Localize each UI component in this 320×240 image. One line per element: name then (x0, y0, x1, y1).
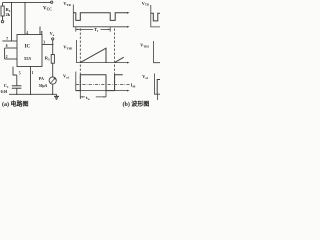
label IM (131, 82, 136, 88)
caption a (2, 100, 29, 108)
svg-text:7: 7 (6, 37, 8, 41)
node VTH waveform R2 axes (154, 41, 161, 63)
wire pin4 drop (24, 3, 26, 35)
wire Vo pulse trace (76, 75, 123, 91)
wire top Vcc rail (3, 2, 51, 4)
svg-text:555: 555 (24, 56, 32, 61)
node Vo label (50, 31, 55, 37)
node junction dots (11, 2, 54, 95)
input terminal (1, 20, 3, 22)
label VTH1 (63, 45, 73, 51)
svg-text:(a) 电路图: (a) 电路图 (2, 100, 29, 108)
wire Vcc drop to pin7 (11, 3, 13, 41)
node Vo waveform R3 axes (155, 74, 161, 95)
pin label 3 (43, 41, 45, 45)
svg-text:2: 2 (6, 55, 8, 59)
wire pin8 drop (39, 27, 41, 35)
svg-text:2k: 2k (6, 12, 11, 17)
wire 6-2 tie (4, 48, 6, 59)
svg-text:1: 1 (32, 71, 34, 75)
wire VTR R1 trace (151, 13, 160, 21)
wire dashed timing line b (114, 29, 116, 91)
wire pin 3 output (42, 44, 53, 46)
svg-text:3: 3 (43, 41, 45, 45)
node VTH waveform 2 axes (77, 40, 128, 63)
node VTR waveform 1 axes (73, 5, 127, 27)
wire pin 2 (5, 58, 17, 60)
output terminal (52, 40, 54, 45)
tw dimension (80, 91, 106, 99)
ground (56, 94, 58, 96)
node Vo waveform 3 axes (76, 72, 128, 91)
tick below R3 (157, 95, 159, 100)
meter PA 50uA (49, 77, 56, 84)
svg-text:IC: IC (25, 45, 31, 50)
resistor R5 (52, 45, 54, 55)
svg-text:0.01: 0.01 (1, 89, 8, 94)
node Vcc label (43, 7, 52, 12)
pin labels 4 8 (26, 31, 43, 35)
wire pin1 lead (30, 67, 32, 95)
svg-text:VCC: VCC (43, 7, 52, 12)
op-amp U1: IC 555 box (17, 35, 42, 67)
wire pin 6 (5, 47, 17, 49)
node VTR waveform R1 axes (151, 5, 160, 27)
svg-text:(b) 波形图: (b) 波形图 (123, 100, 150, 108)
wire meter to ground rail (52, 84, 54, 94)
T1 dimension (76, 27, 110, 31)
capacitor C1 (16, 75, 18, 86)
wire VTR trace (73, 13, 127, 21)
pin labels 7 6 2 (6, 37, 9, 59)
wire dashed timing line a (79, 29, 81, 91)
svg-text:PA: PA (39, 76, 44, 81)
wire average current dash-dot line (76, 84, 130, 86)
wire ground rail (9, 93, 57, 95)
label Vo1 (63, 74, 70, 80)
svg-text:Vo: Vo (50, 31, 55, 37)
resistor R4 (2, 3, 4, 6)
wire R5 to meter (52, 63, 54, 77)
svg-text:50μA: 50μA (39, 84, 48, 88)
Vcc terminal (51, 1, 53, 3)
svg-text:6: 6 (6, 44, 8, 48)
wire pin 7 (2, 40, 17, 42)
wire VTH ramp trace (80, 48, 124, 62)
wire pin5 lead (13, 67, 17, 76)
svg-text:5: 5 (19, 71, 21, 75)
label VTR1 (63, 1, 71, 7)
caption b (123, 100, 150, 108)
label R4 value (6, 7, 11, 17)
wire Vo R3 pulse trace (157, 80, 160, 95)
